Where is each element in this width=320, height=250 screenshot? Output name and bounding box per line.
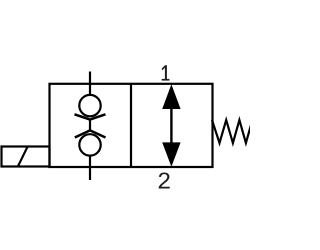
- port label 2: [159, 172, 170, 188]
- wire top stub left position: [89, 72, 91, 96]
- check valve seat CV1: [75, 114, 106, 119]
- valve body outline: [50, 84, 213, 167]
- flow path arrowhead down port 2: [162, 142, 180, 166]
- flow path arrowhead up port 1: [162, 84, 180, 109]
- check valve ball CV1: [79, 95, 100, 116]
- flow path arrow shaft: [170, 105, 172, 146]
- wire bottom stub left position: [89, 156, 91, 181]
- check valve seat CV2: [75, 130, 106, 137]
- port label 1: [162, 65, 170, 80]
- wire between check valves: [89, 120, 91, 131]
- position divider: [130, 84, 132, 167]
- solenoid box: [2, 147, 50, 167]
- check valve ball CV2: [79, 134, 100, 155]
- spring: [212, 120, 252, 143]
- solenoid diagonal: [18, 147, 28, 166]
